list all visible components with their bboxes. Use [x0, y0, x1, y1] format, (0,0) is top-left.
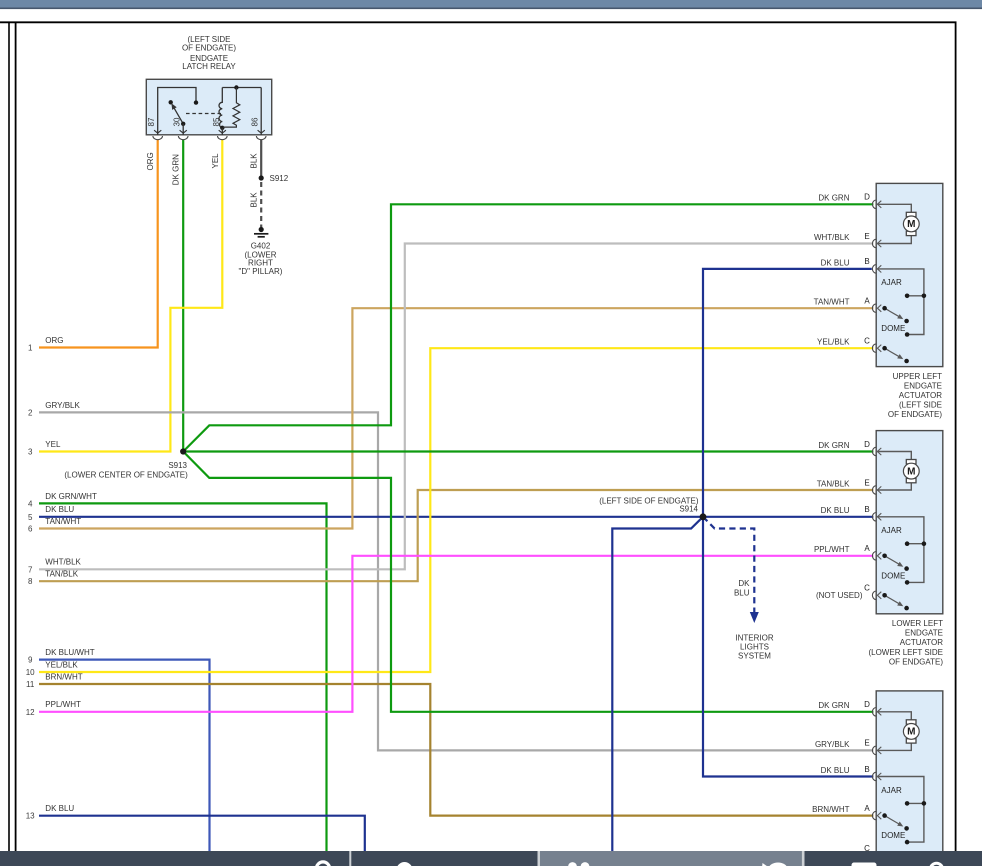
svg-text:PPL/WHT: PPL/WHT: [814, 545, 850, 554]
wire 7 WHT/BLK to actuator 1 pin E: [39, 244, 873, 570]
svg-text:DK BLU: DK BLU: [821, 258, 850, 267]
svg-text:9: 9: [28, 656, 33, 665]
svg-text:D: D: [864, 440, 870, 449]
svg-text:OF ENDGATE): OF ENDGATE): [889, 657, 943, 666]
svg-text:87: 87: [147, 117, 156, 126]
svg-text:B: B: [864, 505, 869, 514]
svg-text:30: 30: [173, 117, 182, 126]
node S913: [180, 448, 186, 454]
svg-text:ENDGATE: ENDGATE: [905, 629, 943, 638]
wire 13 DK BLU down offpage: [39, 816, 365, 851]
svg-text:(LEFT SIDE: (LEFT SIDE: [899, 401, 942, 410]
motor M3: [877, 712, 911, 720]
svg-text:ORG: ORG: [146, 152, 155, 170]
wire 10 YEL/BLK to actuator 1 pin C: [39, 348, 873, 672]
svg-text:4: 4: [28, 499, 33, 508]
svg-text:E: E: [864, 232, 869, 241]
svg-text:D: D: [864, 193, 870, 202]
svg-text:AJAR: AJAR: [881, 278, 902, 287]
svg-text:AJAR: AJAR: [881, 526, 902, 535]
svg-text:B: B: [864, 765, 869, 774]
svg-text:S913: S913: [168, 461, 187, 470]
svg-text:1: 1: [28, 344, 33, 353]
motor M1: [877, 204, 911, 212]
svg-text:DK GRN/WHT: DK GRN/WHT: [45, 492, 97, 501]
svg-text:86: 86: [251, 117, 260, 126]
svg-text:DK GRN: DK GRN: [818, 701, 849, 710]
wire DK GRN S913 branch to actuator 1 pin D: [183, 204, 873, 451]
svg-text:7: 7: [28, 565, 33, 574]
svg-text:13: 13: [26, 812, 35, 821]
actuator U2 pin connectors and letters: [872, 447, 876, 456]
actuator U2 box: [876, 431, 943, 614]
svg-text:PPL/WHT: PPL/WHT: [45, 700, 81, 709]
top browser bar: [0, 0, 982, 8]
actuator U2 switch at pin C: [885, 595, 902, 605]
wire DK GRN relay pin 30 down to S913: [182, 140, 184, 452]
wire DK GRN S913 branch to actuator 3 pin D: [183, 452, 873, 712]
wire 3 YEL from relay pin 85: [39, 140, 222, 452]
svg-text:OF ENDGATE): OF ENDGATE): [888, 410, 942, 419]
wire DK GRN S913 branch to actuator 2 pin D: [183, 450, 873, 452]
svg-text:E: E: [864, 739, 869, 748]
svg-text:LIGHTS: LIGHTS: [740, 643, 769, 652]
svg-text:DK GRN: DK GRN: [172, 154, 181, 185]
wire DK BLU dashed to interior lights system: [703, 517, 754, 612]
svg-text:11: 11: [26, 680, 35, 689]
wire 4 DK GRN/WHT down offpage: [39, 503, 327, 851]
relay internal circuit: [158, 88, 196, 135]
svg-text:INTERIOR: INTERIOR: [735, 634, 773, 643]
wire 6 TAN/WHT to actuator 1 pin A: [39, 308, 873, 528]
wire DK BLU S914 branch down offpage: [612, 517, 703, 851]
svg-text:YEL/BLK: YEL/BLK: [817, 338, 850, 347]
svg-text:G402: G402: [251, 242, 271, 251]
actuator U3 pin connectors and letters: [872, 708, 876, 717]
actuator U3 ajar/dome switch circuit: [877, 777, 924, 843]
svg-text:WHT/BLK: WHT/BLK: [814, 233, 850, 242]
svg-text:SYSTEM: SYSTEM: [738, 652, 771, 661]
svg-text:OF ENDGATE): OF ENDGATE): [182, 44, 236, 53]
svg-text:S914: S914: [679, 505, 698, 514]
actuator U2 switch at pin A: [885, 556, 902, 566]
svg-text:YEL/BLK: YEL/BLK: [45, 660, 78, 669]
svg-text:YEL: YEL: [45, 440, 61, 449]
svg-text:BRN/WHT: BRN/WHT: [45, 672, 82, 681]
svg-text:"D" PILLAR): "D" PILLAR): [239, 267, 283, 276]
svg-text:12: 12: [26, 708, 35, 717]
svg-text:DK: DK: [738, 579, 750, 588]
actuator U1 switch at pin A: [885, 308, 902, 318]
svg-text:2: 2: [28, 408, 33, 417]
svg-text:LATCH RELAY: LATCH RELAY: [182, 62, 236, 71]
svg-text:DOME: DOME: [881, 831, 905, 840]
svg-text:DOME: DOME: [881, 571, 905, 580]
svg-text:S912: S912: [270, 174, 289, 183]
actuator U1 box: [876, 183, 943, 366]
svg-text:BLK: BLK: [250, 153, 259, 169]
actuator U1 switch at pin C: [885, 348, 902, 358]
svg-text:A: A: [864, 804, 870, 813]
svg-text:DOME: DOME: [881, 324, 905, 333]
svg-text:D: D: [864, 700, 870, 709]
svg-text:B: B: [864, 257, 869, 266]
svg-text:TAN/WHT: TAN/WHT: [814, 298, 850, 307]
wire 12 PPL/WHT to actuator 2 pin A: [39, 556, 873, 712]
svg-text:WHT/BLK: WHT/BLK: [45, 558, 81, 567]
svg-text:AJAR: AJAR: [881, 786, 902, 795]
svg-text:C: C: [864, 337, 870, 346]
svg-text:E: E: [864, 478, 869, 487]
svg-text:5: 5: [28, 513, 33, 522]
svg-text:8: 8: [28, 577, 33, 586]
wire 1 ORG from relay pin 87: [39, 140, 158, 348]
svg-text:DK BLU: DK BLU: [45, 804, 74, 813]
wire BLK relay pin 86 to S912: [260, 140, 262, 178]
toolbar icons (partially visible): [316, 862, 329, 866]
svg-text:GRY/BLK: GRY/BLK: [815, 740, 850, 749]
svg-text:A: A: [864, 297, 870, 306]
svg-text:M: M: [907, 219, 915, 230]
ground G402 symbol: [259, 227, 264, 232]
svg-text:UPPER LEFT: UPPER LEFT: [893, 372, 942, 381]
wire DK BLU S914 vertical to actuator 1 pin B and actuator 3 pin B: [703, 269, 873, 777]
svg-text:YEL: YEL: [211, 153, 220, 169]
svg-text:LOWER LEFT: LOWER LEFT: [892, 619, 943, 628]
wire 2 GRY/BLK to lower actuator pin E: [39, 412, 873, 750]
svg-text:DK BLU: DK BLU: [821, 766, 850, 775]
svg-text:ENDGATE: ENDGATE: [904, 381, 942, 390]
svg-text:(NOT USED): (NOT USED): [816, 591, 863, 600]
wire 9 DK BLU/WHT down offpage: [39, 660, 210, 851]
node S912: [259, 175, 264, 180]
svg-text:TAN/BLK: TAN/BLK: [817, 479, 850, 488]
svg-text:A: A: [864, 544, 870, 553]
arrow to interior lights system: [750, 612, 759, 623]
svg-text:DK BLU: DK BLU: [821, 506, 850, 515]
svg-text:TAN/BLK: TAN/BLK: [45, 570, 78, 579]
svg-text:BRN/WHT: BRN/WHT: [812, 805, 849, 814]
bottom toolbar: [0, 851, 982, 866]
actuator U1 ajar/dome switch circuit: [877, 269, 924, 335]
actuator U1 pin connectors and letters: [872, 200, 876, 209]
svg-text:DK GRN: DK GRN: [818, 194, 849, 203]
svg-text:3: 3: [28, 448, 33, 457]
svg-text:M: M: [907, 466, 915, 477]
svg-text:BLK: BLK: [250, 192, 259, 208]
actuator U3 box: [876, 691, 943, 866]
svg-text:GRY/BLK: GRY/BLK: [45, 401, 80, 410]
wire BLK dashed S912 to G402: [260, 182, 262, 227]
page frame: [0, 21, 957, 23]
svg-text:BLU: BLU: [734, 589, 750, 598]
svg-text:C: C: [864, 584, 870, 593]
svg-text:(LOWER LEFT SIDE: (LOWER LEFT SIDE: [868, 648, 943, 657]
svg-text:DK BLU: DK BLU: [45, 505, 74, 514]
actuator U3 switch at pin A: [885, 816, 902, 826]
svg-text:10: 10: [26, 668, 35, 677]
svg-text:ACTUATOR: ACTUATOR: [900, 638, 943, 647]
wire 8 TAN/BLK to actuator 2 pin E: [39, 490, 873, 581]
svg-text:6: 6: [28, 525, 33, 534]
svg-text:DK GRN: DK GRN: [818, 441, 849, 450]
motor M2: [877, 452, 911, 460]
svg-text:DK BLU/WHT: DK BLU/WHT: [45, 648, 94, 657]
svg-text:85: 85: [212, 117, 221, 126]
relay K1 box: [146, 79, 271, 135]
svg-text:ORG: ORG: [45, 336, 63, 345]
actuator U2 ajar/dome switch circuit: [877, 517, 924, 583]
svg-text:TAN/WHT: TAN/WHT: [45, 517, 81, 526]
node S914: [700, 513, 707, 520]
wire 11 BRN/WHT to actuator 3 pin A: [39, 684, 873, 816]
svg-text:M: M: [907, 727, 915, 738]
svg-text:(LOWER CENTER OF ENDGATE): (LOWER CENTER OF ENDGATE): [64, 471, 188, 480]
wire 5 DK BLU through S914 to actuator 2 pin B: [39, 516, 873, 518]
svg-text:ACTUATOR: ACTUATOR: [899, 391, 942, 400]
